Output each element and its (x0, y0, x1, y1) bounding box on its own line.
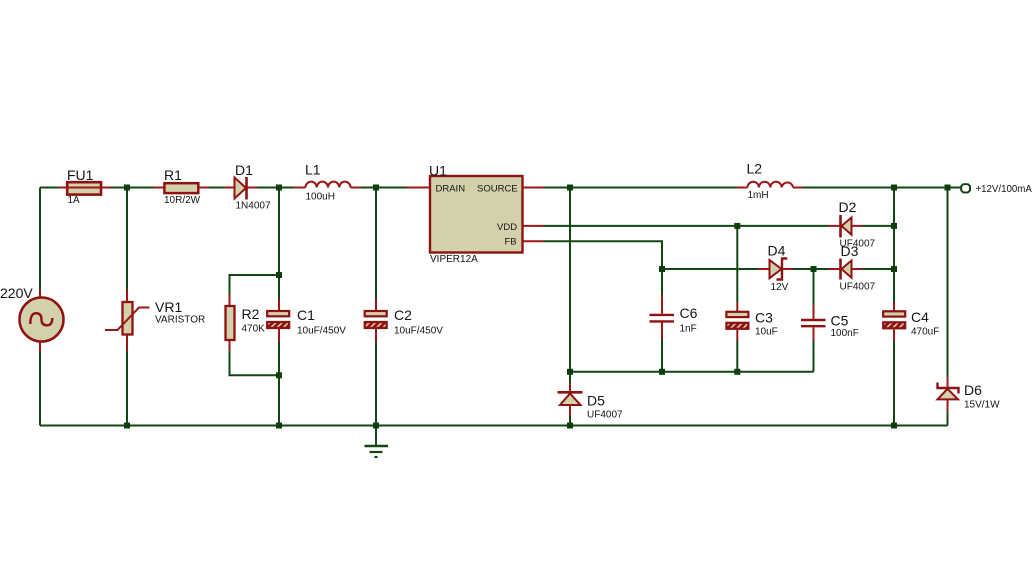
capacitor C4 (883, 302, 905, 341)
wire top rail L1 to U1 DRAIN (361, 187, 408, 189)
svg-text:470K: 470K (242, 323, 266, 334)
junction R2 top (276, 272, 282, 278)
svg-text:C5: C5 (831, 313, 849, 329)
zener diode D4 (758, 259, 793, 280)
capacitor C5 (801, 305, 826, 341)
junction bottom rail at ground (373, 423, 379, 429)
svg-text:470uF: 470uF (911, 327, 939, 338)
svg-text:C1: C1 (297, 307, 315, 323)
junction top rail at D6 branch (945, 185, 951, 191)
svg-text:+12V/100mA: +12V/100mA (976, 184, 1033, 195)
junction top rail at C2 branch (373, 185, 379, 191)
diode D1 (225, 177, 258, 200)
junction top rail at C1 branch (276, 185, 282, 191)
wire FB node to D4 (662, 268, 758, 270)
svg-text:D2: D2 (839, 199, 857, 215)
inductor L2 (737, 182, 803, 188)
svg-text:FU1: FU1 (67, 167, 94, 183)
wire FB line (544, 241, 663, 269)
wire D2 to C4 branch (863, 225, 895, 227)
junction top rail at C4 branch (891, 185, 897, 191)
wire C4 branch vertical (893, 188, 895, 426)
wire top rail FU1 to junction (111, 187, 154, 189)
junction VDD at D2 right (891, 223, 897, 229)
wire lower mid horizontal (snubber return) (570, 371, 814, 373)
resistor R2 (226, 295, 235, 352)
svg-text:R1: R1 (164, 167, 182, 183)
svg-text:DRAIN: DRAIN (436, 184, 466, 195)
svg-text:1nF: 1nF (680, 324, 697, 335)
svg-text:12V: 12V (771, 282, 789, 293)
junction top rail at VR1 (124, 185, 130, 191)
resistor R1 (153, 183, 209, 193)
junction FB node at C6 (659, 266, 665, 272)
svg-text:10uF: 10uF (755, 327, 778, 338)
svg-text:R2: R2 (242, 306, 260, 322)
svg-text:10uF/450V: 10uF/450V (297, 326, 346, 337)
varistor VR1 (105, 289, 150, 352)
junction D3 right at C4 branch (891, 266, 897, 272)
fuse FU1 (59, 182, 111, 194)
junction bottom rail at C4 branch (891, 423, 897, 429)
wire VR1 branch vertical (126, 188, 128, 426)
junction bottom rail at C1 branch (276, 423, 282, 429)
wire R2 parallel loop bottom (230, 351, 280, 375)
capacitor C1 (267, 300, 289, 343)
capacitor C6 (650, 295, 675, 340)
junction bottom rail at D5 (567, 423, 573, 429)
wire top rail left segment (40, 187, 59, 189)
svg-text:SOURCE: SOURCE (477, 184, 518, 195)
op-amp U1 VIPER12A (407, 176, 544, 253)
svg-text:VIPER12A: VIPER12A (430, 254, 478, 265)
svg-text:VR1: VR1 (155, 299, 182, 315)
wire top rail R1 to D1 (209, 187, 225, 189)
svg-text:C6: C6 (680, 305, 698, 321)
wire D5 branch (569, 372, 571, 426)
svg-text:220V: 220V (0, 285, 33, 301)
svg-text:10R/2W: 10R/2W (164, 195, 201, 206)
wire SOURCE junction vertical (569, 188, 571, 372)
svg-text:D5: D5 (587, 393, 605, 409)
junction mid line at D5 (567, 369, 573, 375)
AC source 220V (20, 289, 64, 352)
wire D4 to D3 (793, 268, 830, 270)
wire VDD line (544, 225, 829, 227)
ground (365, 446, 389, 457)
svg-text:15V/1W: 15V/1W (964, 400, 1000, 411)
junction mid line at C6 bottom (659, 369, 665, 375)
wire C5 branch vertical (813, 269, 815, 372)
wire top rail SOURCE to L2 (544, 187, 737, 189)
svg-text:U1: U1 (429, 163, 447, 179)
junction R2 bottom (276, 372, 282, 378)
wire C3 branch vertical (736, 226, 738, 372)
svg-text:D3: D3 (841, 243, 859, 259)
capacitor C2 (365, 300, 387, 343)
wire C6 branch vertical (661, 269, 663, 372)
diode D5 (558, 383, 583, 417)
svg-text:D1: D1 (235, 162, 253, 178)
wire C1 branch vertical (278, 188, 280, 426)
wire left vertical (220V source branch) (39, 188, 41, 426)
svg-text:UF4007: UF4007 (587, 410, 623, 421)
wire D6 branch vertical (947, 188, 949, 426)
junction top rail at SOURCE (567, 185, 573, 191)
svg-text:1N4007: 1N4007 (236, 200, 271, 211)
inductor L1 (294, 182, 361, 188)
svg-text:VARISTOR: VARISTOR (155, 314, 205, 325)
wire top rail D1 to L1 (257, 187, 294, 189)
junction VDD at C3 branch (734, 223, 740, 229)
svg-text:10uF/450V: 10uF/450V (394, 326, 443, 337)
svg-text:1mH: 1mH (748, 190, 769, 201)
svg-text:L1: L1 (305, 162, 321, 178)
wire bottom rail (40, 425, 948, 427)
svg-text:100nF: 100nF (831, 328, 859, 339)
svg-text:L2: L2 (747, 161, 763, 177)
svg-text:FB: FB (505, 237, 517, 248)
svg-text:UF4007: UF4007 (840, 282, 876, 293)
svg-text:C3: C3 (755, 310, 773, 326)
diode D2 (829, 215, 863, 238)
svg-text:D6: D6 (964, 382, 982, 398)
svg-text:100uH: 100uH (306, 192, 335, 203)
output terminal +12V/100mA (961, 184, 970, 192)
wire ground stub (375, 426, 377, 446)
svg-text:VDD: VDD (497, 222, 517, 233)
svg-text:1A: 1A (68, 195, 81, 206)
wire C2 branch vertical (375, 188, 377, 426)
svg-text:C4: C4 (911, 309, 929, 325)
svg-text:D4: D4 (768, 243, 786, 259)
wire D3 to C4 branch (863, 268, 895, 270)
svg-text:C2: C2 (394, 307, 412, 323)
junction bottom rail at VR1 (124, 423, 130, 429)
wire top rail L2 to output terminal (803, 187, 962, 189)
zener diode D6 (938, 377, 959, 411)
junction mid line at C3 bottom (734, 369, 740, 375)
junction D4-D3 at C5 branch (811, 266, 817, 272)
diode D3 (829, 259, 863, 280)
wire R2 parallel loop top (230, 275, 280, 295)
capacitor C3 (726, 302, 748, 341)
